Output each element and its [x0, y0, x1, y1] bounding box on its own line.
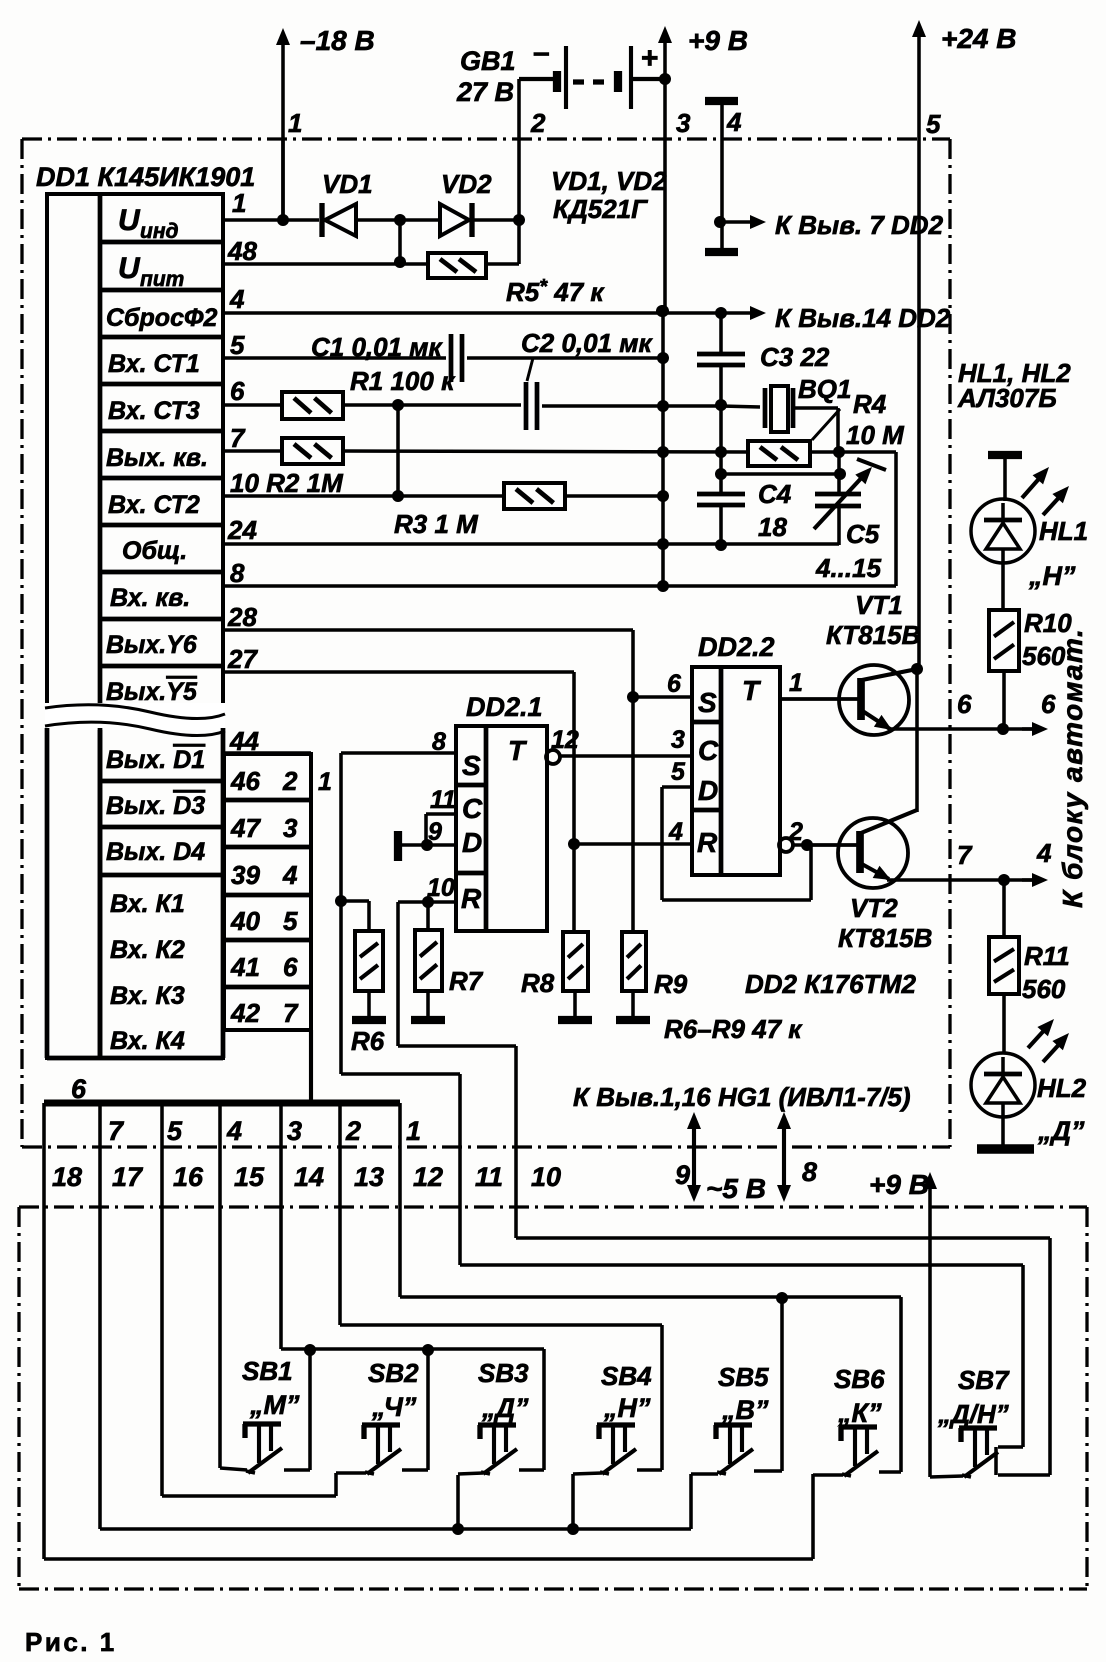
svg-text:5: 5 — [926, 109, 941, 139]
svg-text:VD2: VD2 — [441, 169, 492, 199]
svg-text:Рис. 1: Рис. 1 — [25, 1627, 117, 1657]
svg-text:3: 3 — [283, 813, 298, 843]
svg-text:41: 41 — [230, 952, 260, 982]
svg-text:К Выв.14 DD2: К Выв.14 DD2 — [775, 303, 951, 333]
svg-text:40: 40 — [230, 906, 260, 936]
svg-text:К Выв. 7 DD2: К Выв. 7 DD2 — [775, 210, 944, 240]
svg-text:R5* 47 к: R5* 47 к — [506, 276, 605, 307]
svg-text:R7: R7 — [449, 966, 484, 996]
svg-text:SB1: SB1 — [242, 1356, 293, 1386]
svg-text:1: 1 — [789, 669, 803, 697]
svg-text:2: 2 — [530, 108, 546, 138]
svg-text:4: 4 — [1036, 838, 1052, 868]
svg-text:1: 1 — [318, 768, 332, 796]
svg-text:7: 7 — [230, 423, 246, 453]
svg-text:5: 5 — [167, 1116, 183, 1146]
svg-text:47: 47 — [230, 813, 261, 843]
svg-text:4: 4 — [229, 284, 245, 314]
svg-text:7: 7 — [108, 1116, 125, 1146]
svg-text:пит: пит — [140, 268, 184, 291]
svg-text:АЛ307Б: АЛ307Б — [957, 383, 1057, 413]
svg-text:17: 17 — [112, 1162, 144, 1192]
svg-text:8: 8 — [230, 558, 245, 588]
svg-text:–: – — [533, 36, 550, 69]
svg-text:10 R2 1М: 10 R2 1М — [230, 468, 344, 498]
svg-text:24: 24 — [227, 515, 257, 545]
svg-text:R6–R9 47 к: R6–R9 47 к — [664, 1014, 803, 1044]
svg-text:T: T — [508, 735, 528, 766]
svg-text:Вых. D3: Вых. D3 — [106, 792, 205, 820]
svg-text:7: 7 — [283, 998, 299, 1028]
svg-text:46: 46 — [230, 766, 260, 796]
svg-text:„К”: „К” — [837, 1398, 882, 1428]
svg-text:HL1: HL1 — [1039, 516, 1088, 546]
svg-text:инд: инд — [140, 220, 179, 243]
svg-text:„Д/Н”: „Д/Н” — [937, 1399, 1009, 1429]
svg-text:SB7: SB7 — [958, 1365, 1010, 1395]
svg-text:2: 2 — [345, 1116, 361, 1146]
svg-text:7: 7 — [957, 840, 973, 870]
svg-text:1: 1 — [232, 188, 246, 218]
svg-text:6: 6 — [1041, 689, 1056, 719]
svg-text:Вх. СТ3: Вх. СТ3 — [108, 397, 200, 425]
svg-text:„Д”: „Д” — [1037, 1116, 1085, 1146]
svg-text:42: 42 — [230, 998, 260, 1028]
svg-text:12: 12 — [413, 1162, 443, 1192]
svg-text:+9 В: +9 В — [869, 1169, 929, 1200]
svg-text:GB1: GB1 — [460, 46, 516, 76]
svg-text:10 М: 10 М — [846, 420, 905, 450]
svg-text:КД521Г: КД521Г — [553, 194, 648, 224]
svg-text:SB3: SB3 — [478, 1358, 529, 1388]
svg-text:SB6: SB6 — [834, 1364, 885, 1394]
svg-text:R6: R6 — [351, 1026, 385, 1056]
svg-text:13: 13 — [354, 1162, 384, 1192]
svg-text:8: 8 — [802, 1157, 817, 1187]
svg-text:4: 4 — [226, 1116, 242, 1146]
svg-text:27 В: 27 В — [456, 77, 514, 107]
svg-text:Вх. К3: Вх. К3 — [110, 982, 185, 1010]
svg-text:Вых.Y5: Вых.Y5 — [106, 678, 198, 706]
svg-text:1: 1 — [406, 1116, 421, 1146]
svg-text:6: 6 — [71, 1074, 87, 1104]
svg-text:6: 6 — [230, 376, 245, 406]
svg-text:4: 4 — [726, 107, 742, 137]
svg-text:Вых. кв.: Вых. кв. — [106, 444, 208, 472]
svg-text:VD1, VD2: VD1, VD2 — [551, 166, 667, 196]
svg-text:Вх. кв.: Вх. кв. — [110, 584, 190, 612]
svg-text:C: C — [698, 735, 719, 766]
svg-text:Вых.Y6: Вых.Y6 — [106, 631, 198, 659]
svg-text:Вых. D1: Вых. D1 — [106, 746, 205, 774]
svg-text:~5 В: ~5 В — [706, 1173, 766, 1204]
svg-text:Вх. СТ1: Вх. СТ1 — [108, 350, 200, 378]
svg-text:VT1: VT1 — [855, 590, 903, 620]
svg-text:„М”: „М” — [249, 1390, 300, 1420]
svg-text:S: S — [462, 750, 481, 781]
svg-text:10: 10 — [531, 1162, 561, 1192]
svg-text:3: 3 — [671, 726, 685, 754]
svg-text:5: 5 — [671, 758, 686, 786]
svg-text:+: + — [641, 42, 659, 75]
svg-text:С5: С5 — [846, 519, 880, 549]
svg-text:4...15: 4...15 — [815, 553, 882, 583]
svg-text:R: R — [461, 883, 482, 914]
svg-text:28: 28 — [227, 602, 257, 632]
svg-text:К блоку автомат.: К блоку автомат. — [1057, 628, 1088, 908]
svg-text:6: 6 — [667, 670, 682, 698]
svg-text:T: T — [742, 675, 762, 706]
svg-text:U: U — [118, 204, 141, 237]
svg-text:„Н”: „Н” — [603, 1393, 651, 1423]
svg-text:С4: С4 — [758, 479, 792, 509]
svg-text:2: 2 — [282, 766, 298, 796]
svg-text:DD2.2: DD2.2 — [698, 632, 775, 662]
svg-text:HL2: HL2 — [1037, 1073, 1087, 1103]
svg-text:VT2: VT2 — [850, 893, 898, 923]
svg-text:11: 11 — [475, 1162, 503, 1192]
svg-text:Вх. СТ2: Вх. СТ2 — [108, 491, 200, 519]
svg-text:С3 22: С3 22 — [760, 342, 830, 372]
svg-text:R9: R9 — [654, 969, 688, 999]
svg-text:–18 В: –18 В — [300, 25, 375, 56]
svg-text:5: 5 — [283, 906, 298, 936]
svg-text:R1 100 к: R1 100 к — [350, 366, 456, 396]
svg-text:Общ.: Общ. — [122, 537, 187, 565]
svg-text:3: 3 — [676, 108, 691, 138]
svg-text:11: 11 — [430, 786, 456, 814]
svg-text:СбросФ2: СбросФ2 — [106, 304, 217, 332]
svg-text:„Д”: „Д” — [481, 1393, 529, 1423]
svg-text:С2 0,01 мк: С2 0,01 мк — [521, 328, 654, 358]
svg-text:Вх. К1: Вх. К1 — [110, 890, 185, 918]
svg-text:КТ815В: КТ815В — [826, 620, 920, 650]
svg-text:3: 3 — [287, 1116, 302, 1146]
svg-text:560: 560 — [1022, 974, 1066, 1004]
svg-text:U: U — [118, 252, 141, 285]
svg-text:С1 0,01 мк: С1 0,01 мк — [311, 332, 444, 362]
svg-text:BQ1: BQ1 — [798, 374, 851, 404]
svg-text:SB4: SB4 — [601, 1361, 652, 1391]
svg-text:R11: R11 — [1024, 941, 1070, 971]
svg-text:К Выв.1,16 HG1 (ИВЛ1-7/5): К Выв.1,16 HG1 (ИВЛ1-7/5) — [573, 1082, 911, 1112]
svg-text:16: 16 — [173, 1162, 204, 1192]
svg-text:DD2.1: DD2.1 — [466, 692, 543, 722]
svg-text:+24 В: +24 В — [941, 23, 1017, 54]
svg-text:„Ч”: „Ч” — [371, 1392, 417, 1422]
svg-text:R8: R8 — [521, 968, 555, 998]
svg-text:14: 14 — [294, 1162, 324, 1192]
svg-text:6: 6 — [957, 689, 972, 719]
svg-text:VD1: VD1 — [322, 169, 373, 199]
svg-text:5: 5 — [230, 330, 245, 360]
svg-text:18: 18 — [758, 512, 787, 542]
svg-text:48: 48 — [227, 236, 257, 266]
svg-text:15: 15 — [234, 1162, 265, 1192]
svg-text:R3 1 М: R3 1 М — [394, 509, 479, 539]
svg-text:4: 4 — [282, 860, 298, 890]
svg-text:DD2 К176ТМ2: DD2 К176ТМ2 — [745, 969, 916, 999]
svg-text:6: 6 — [283, 952, 298, 982]
svg-text:R: R — [697, 827, 718, 858]
svg-text:КТ815В: КТ815В — [838, 923, 932, 953]
svg-text:„Н”: „Н” — [1028, 561, 1076, 591]
svg-text:18: 18 — [52, 1162, 82, 1192]
svg-text:39: 39 — [231, 860, 260, 890]
svg-text:C: C — [462, 793, 483, 824]
svg-text:Вых. D4: Вых. D4 — [106, 838, 205, 866]
svg-text:27: 27 — [227, 644, 258, 674]
svg-text:S: S — [698, 687, 717, 718]
svg-text:4: 4 — [668, 818, 683, 846]
svg-text:+9 В: +9 В — [688, 25, 748, 56]
svg-text:R4: R4 — [853, 389, 887, 419]
svg-text:SB5: SB5 — [718, 1362, 769, 1392]
svg-text:Вх. К4: Вх. К4 — [110, 1027, 185, 1055]
svg-text:D: D — [698, 775, 718, 806]
svg-text:DD1 К145ИК1901: DD1 К145ИК1901 — [36, 162, 255, 192]
svg-text:Вх. К2: Вх. К2 — [110, 936, 185, 964]
svg-text:1: 1 — [288, 108, 302, 138]
svg-text:D: D — [462, 827, 482, 858]
svg-text:„В”: „В” — [721, 1395, 769, 1425]
svg-text:SB2: SB2 — [368, 1358, 419, 1388]
